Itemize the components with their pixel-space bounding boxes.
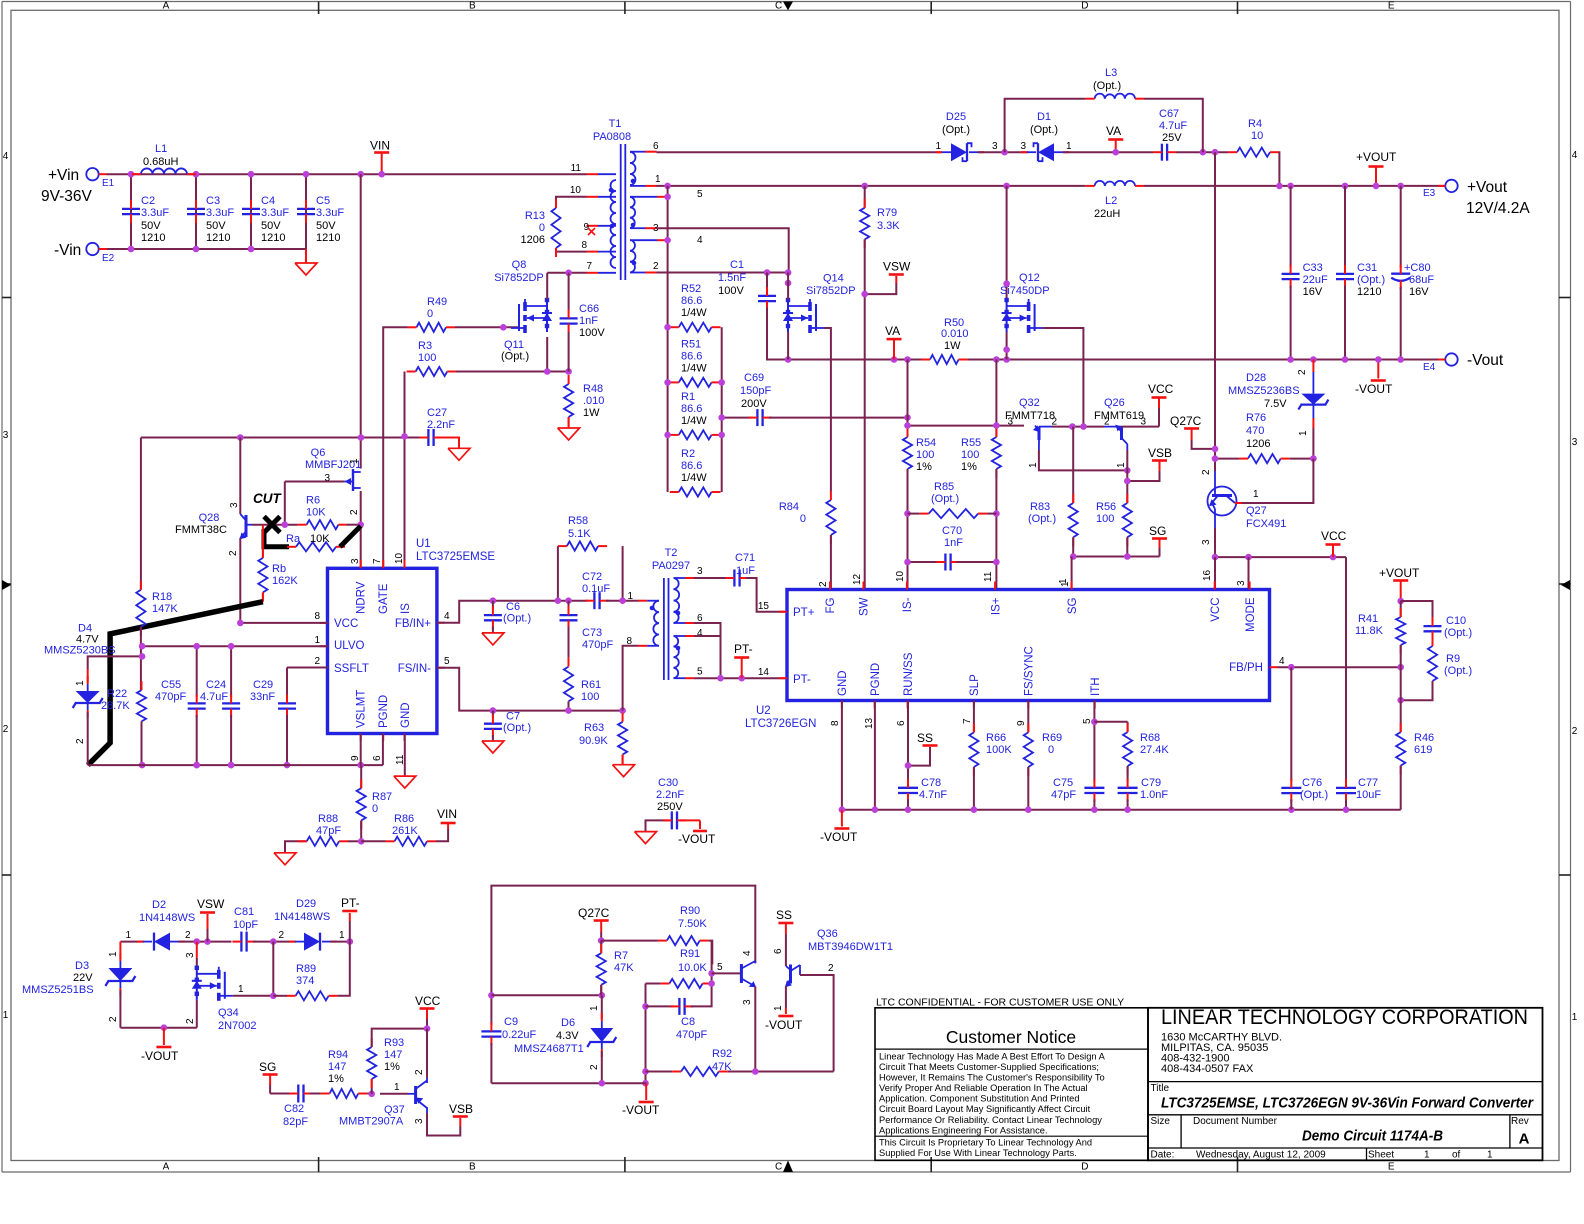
svg-text:16V: 16V xyxy=(1303,286,1323,298)
svg-text:+C80: +C80 xyxy=(1404,262,1431,274)
svg-text:3.3uF: 3.3uF xyxy=(261,207,289,219)
svg-text:9: 9 xyxy=(1016,720,1027,726)
svg-text:ULVO: ULVO xyxy=(334,640,365,652)
svg-text:CUT: CUT xyxy=(253,491,282,506)
svg-text:100: 100 xyxy=(581,691,599,703)
svg-text:50V: 50V xyxy=(206,220,226,232)
svg-text:C67: C67 xyxy=(1159,108,1179,120)
svg-text:Rb: Rb xyxy=(272,563,286,575)
svg-text:L2: L2 xyxy=(1105,195,1117,207)
svg-text:16: 16 xyxy=(1202,569,1213,581)
svg-text:3: 3 xyxy=(992,141,998,152)
svg-text:E2: E2 xyxy=(102,253,115,264)
svg-text:Si7852DP: Si7852DP xyxy=(494,272,544,284)
svg-text:-VOUT: -VOUT xyxy=(622,1103,660,1117)
svg-text:VCC: VCC xyxy=(1148,382,1174,396)
svg-text:However, It Remains The Custom: However, It Remains The Customer's Respo… xyxy=(879,1073,1105,1083)
svg-text:R51: R51 xyxy=(681,338,701,350)
svg-text:4.7nF: 4.7nF xyxy=(919,789,947,801)
svg-text:(Opt.): (Opt.) xyxy=(931,493,959,505)
svg-text:47pF: 47pF xyxy=(316,825,341,837)
svg-text:86.6: 86.6 xyxy=(681,295,702,307)
svg-text:L3: L3 xyxy=(1105,67,1117,79)
svg-text:Date:: Date: xyxy=(1151,1150,1175,1161)
svg-text:L1: L1 xyxy=(155,143,167,155)
svg-text:5: 5 xyxy=(697,189,703,200)
svg-text:-Vin: -Vin xyxy=(54,242,81,259)
svg-text:Supplied For Use With Linear T: Supplied For Use With Linear Technology … xyxy=(879,1148,1077,1158)
svg-text:4.7uF: 4.7uF xyxy=(1159,120,1187,132)
svg-text:16V: 16V xyxy=(1409,286,1429,298)
svg-text:C33: C33 xyxy=(1303,262,1323,274)
svg-text:E4: E4 xyxy=(1423,362,1436,373)
svg-text:FMMT38C: FMMT38C xyxy=(175,524,227,536)
svg-text:2: 2 xyxy=(1297,369,1308,375)
svg-text:Performance Or Reliability. Co: Performance Or Reliability. Contact Line… xyxy=(879,1115,1102,1125)
svg-text:C24: C24 xyxy=(206,679,226,691)
svg-text:-VOUT: -VOUT xyxy=(678,832,716,846)
svg-text:3: 3 xyxy=(3,430,9,441)
svg-text:1nF: 1nF xyxy=(579,315,598,327)
svg-text:SG: SG xyxy=(1067,597,1079,614)
svg-text:5: 5 xyxy=(697,667,703,678)
svg-text:C6: C6 xyxy=(506,601,520,613)
svg-text:2: 2 xyxy=(1104,417,1110,428)
svg-text:T1: T1 xyxy=(609,118,622,130)
svg-text:VSLMT: VSLMT xyxy=(356,690,368,728)
svg-text:6: 6 xyxy=(653,141,659,152)
svg-text:1210: 1210 xyxy=(1357,286,1381,298)
svg-text:5.1K: 5.1K xyxy=(568,528,591,540)
svg-text:Q26: Q26 xyxy=(1104,397,1125,409)
svg-text:Document Number: Document Number xyxy=(1193,1116,1278,1127)
svg-text:C2: C2 xyxy=(141,195,155,207)
svg-text:C73: C73 xyxy=(582,627,602,639)
svg-text:RUN/SS: RUN/SS xyxy=(903,652,915,696)
svg-text:A: A xyxy=(1519,1131,1530,1148)
svg-text:3: 3 xyxy=(1201,539,1212,545)
svg-text:3.3uF: 3.3uF xyxy=(316,207,344,219)
svg-text:150pF: 150pF xyxy=(740,385,771,397)
svg-text:408-434-0507 FAX: 408-434-0507 FAX xyxy=(1161,1063,1254,1075)
svg-text:1N4148WS: 1N4148WS xyxy=(139,912,195,924)
svg-text:MODE: MODE xyxy=(1245,597,1257,632)
svg-text:C10: C10 xyxy=(1446,615,1466,627)
svg-text:47K: 47K xyxy=(712,1061,732,1073)
svg-text:D2: D2 xyxy=(152,899,166,911)
svg-text:5: 5 xyxy=(717,962,723,973)
svg-text:Ra: Ra xyxy=(286,533,301,545)
svg-text:2: 2 xyxy=(3,724,9,735)
svg-text:86.6: 86.6 xyxy=(681,403,702,415)
svg-text:2: 2 xyxy=(349,509,360,515)
svg-text:3: 3 xyxy=(742,999,753,1005)
svg-text:2: 2 xyxy=(653,261,659,272)
svg-text:1: 1 xyxy=(773,1005,784,1011)
svg-text:D28: D28 xyxy=(1246,372,1266,384)
svg-text:100V: 100V xyxy=(718,285,744,297)
svg-text:0.68uH: 0.68uH xyxy=(143,156,179,168)
svg-text:1: 1 xyxy=(1116,462,1127,468)
svg-text:SLP: SLP xyxy=(969,674,981,696)
svg-text:VIN: VIN xyxy=(437,807,457,821)
svg-text:100: 100 xyxy=(418,352,436,364)
svg-text:0.1uF: 0.1uF xyxy=(582,583,610,595)
svg-text:MMSZ5230BS: MMSZ5230BS xyxy=(44,645,116,657)
svg-text:9V-36V: 9V-36V xyxy=(41,188,93,205)
svg-text:68uF: 68uF xyxy=(1409,274,1434,286)
svg-text:MMSZ5251BS: MMSZ5251BS xyxy=(22,984,94,996)
svg-text:FB/PH: FB/PH xyxy=(1229,662,1263,674)
svg-text:1210: 1210 xyxy=(316,232,340,244)
svg-text:PT-: PT- xyxy=(793,674,811,686)
svg-text:NDRV: NDRV xyxy=(356,581,368,614)
svg-text:1/4W: 1/4W xyxy=(681,362,707,374)
svg-text:FS/IN-: FS/IN- xyxy=(398,663,431,675)
svg-text:8: 8 xyxy=(581,240,587,251)
svg-text:0: 0 xyxy=(539,222,545,234)
svg-text:R84: R84 xyxy=(779,501,799,513)
svg-text:R88: R88 xyxy=(318,813,338,825)
svg-text:LTC3725EMSE, LTC3726EGN 9V-36: LTC3725EMSE, LTC3726EGN 9V-36Vin Forward… xyxy=(1161,1095,1534,1112)
svg-text:C31: C31 xyxy=(1357,262,1377,274)
svg-text:100V: 100V xyxy=(579,327,605,339)
svg-text:Q11: Q11 xyxy=(504,339,524,351)
svg-text:C66: C66 xyxy=(579,303,599,315)
svg-text:FCX491: FCX491 xyxy=(1246,518,1286,530)
svg-text:47K: 47K xyxy=(614,962,634,974)
svg-text:3: 3 xyxy=(1572,437,1578,448)
svg-text:R90: R90 xyxy=(680,905,700,917)
svg-text:SSFLT: SSFLT xyxy=(334,663,369,675)
svg-text:R86: R86 xyxy=(394,813,414,825)
svg-text:R89: R89 xyxy=(296,963,316,975)
svg-text:C7: C7 xyxy=(506,711,520,723)
svg-text:25V: 25V xyxy=(1162,132,1182,144)
svg-text:R68: R68 xyxy=(1140,732,1160,744)
svg-text:1/4W: 1/4W xyxy=(681,307,707,319)
svg-text:4: 4 xyxy=(1279,656,1285,667)
svg-text:8: 8 xyxy=(830,720,841,726)
svg-text:1210: 1210 xyxy=(141,232,165,244)
svg-text:12V/4.2A: 12V/4.2A xyxy=(1466,200,1530,217)
svg-text:2: 2 xyxy=(75,738,86,744)
svg-text:VSB: VSB xyxy=(1148,446,1172,460)
svg-text:1: 1 xyxy=(314,635,320,646)
svg-text:Q34: Q34 xyxy=(218,1007,239,1019)
svg-text:1: 1 xyxy=(1253,489,1259,500)
svg-text:SG: SG xyxy=(1149,524,1166,538)
svg-text:-VOUT: -VOUT xyxy=(820,830,858,844)
svg-text:.010: .010 xyxy=(583,395,604,407)
svg-text:261K: 261K xyxy=(392,825,418,837)
svg-text:Wednesday, August 12, 2009: Wednesday, August 12, 2009 xyxy=(1196,1150,1326,1161)
svg-text:This Circuit Is Proprietary To: This Circuit Is Proprietary To Linear Te… xyxy=(879,1138,1092,1148)
svg-text:Sheet: Sheet xyxy=(1368,1150,1394,1161)
svg-text:2: 2 xyxy=(818,581,829,587)
svg-text:C5: C5 xyxy=(316,195,330,207)
svg-text:1%: 1% xyxy=(961,461,977,473)
svg-text:3: 3 xyxy=(1236,580,1247,586)
svg-text:(Opt.): (Opt.) xyxy=(503,613,531,625)
svg-text:Si7450DP: Si7450DP xyxy=(1000,285,1050,297)
svg-text:A: A xyxy=(163,1162,170,1173)
svg-text:E: E xyxy=(1388,1,1395,12)
svg-text:2N7002: 2N7002 xyxy=(218,1020,257,1032)
svg-text:R69: R69 xyxy=(1042,732,1062,744)
svg-text:2: 2 xyxy=(108,1016,119,1022)
svg-text:R18: R18 xyxy=(152,591,172,603)
svg-text:VIN: VIN xyxy=(370,139,390,153)
svg-text:C3: C3 xyxy=(206,195,220,207)
svg-text:(Opt.): (Opt.) xyxy=(501,351,529,363)
svg-text:0: 0 xyxy=(427,308,433,320)
svg-text:LTC CONFIDENTIAL - FOR CUSTOME: LTC CONFIDENTIAL - FOR CUSTOMER USE ONLY xyxy=(876,997,1124,1009)
svg-text:R13: R13 xyxy=(525,210,545,222)
svg-text:R22: R22 xyxy=(107,688,127,700)
svg-text:C81: C81 xyxy=(234,906,254,918)
svg-text:1/4W: 1/4W xyxy=(681,415,707,427)
svg-text:GATE: GATE xyxy=(378,583,390,614)
svg-text:C76: C76 xyxy=(1302,777,1322,789)
svg-text:1N4148WS: 1N4148WS xyxy=(274,911,330,923)
svg-text:6: 6 xyxy=(372,755,383,761)
svg-text:Q27C: Q27C xyxy=(578,906,610,920)
svg-text:86.6: 86.6 xyxy=(681,350,702,362)
svg-text:3.3uF: 3.3uF xyxy=(206,207,234,219)
svg-text:MMSZ4687T1: MMSZ4687T1 xyxy=(514,1043,584,1055)
svg-text:R46: R46 xyxy=(1414,732,1434,744)
svg-text:-VOUT: -VOUT xyxy=(765,1018,803,1032)
svg-text:1: 1 xyxy=(589,1005,600,1011)
svg-text:Demo Circuit 1174A-B: Demo Circuit 1174A-B xyxy=(1302,1129,1443,1145)
svg-text:C77: C77 xyxy=(1358,777,1378,789)
svg-text:Q28: Q28 xyxy=(199,512,220,524)
svg-text:1W: 1W xyxy=(944,340,961,352)
svg-text:C71: C71 xyxy=(735,552,755,564)
svg-text:C1: C1 xyxy=(730,259,744,271)
svg-text:12: 12 xyxy=(852,573,863,585)
svg-text:R87: R87 xyxy=(372,791,392,803)
svg-text:R54: R54 xyxy=(916,437,936,449)
svg-text:1210: 1210 xyxy=(206,232,230,244)
svg-text:R76: R76 xyxy=(1246,412,1266,424)
svg-text:PT-: PT- xyxy=(341,896,360,910)
svg-text:D6: D6 xyxy=(561,1017,575,1029)
svg-text:1: 1 xyxy=(238,984,244,995)
svg-text:VCC: VCC xyxy=(334,618,358,630)
svg-text:Q36: Q36 xyxy=(817,928,838,940)
svg-text:R92: R92 xyxy=(712,1048,732,1060)
svg-text:MBT3946DW1T1: MBT3946DW1T1 xyxy=(808,941,893,953)
svg-text:11: 11 xyxy=(571,163,582,174)
svg-text:10K: 10K xyxy=(310,533,330,545)
svg-text:3.3uF: 3.3uF xyxy=(141,207,169,219)
svg-text:IS: IS xyxy=(400,603,412,614)
svg-text:11.8K: 11.8K xyxy=(1355,625,1384,637)
svg-text:2.2nF: 2.2nF xyxy=(427,419,455,431)
svg-text:2: 2 xyxy=(314,656,320,667)
svg-text:3: 3 xyxy=(185,952,196,958)
svg-text:10K: 10K xyxy=(306,507,326,519)
svg-text:11: 11 xyxy=(983,571,994,582)
svg-text:(Opt.): (Opt.) xyxy=(942,124,970,136)
svg-text:5: 5 xyxy=(444,656,450,667)
svg-text:R9: R9 xyxy=(1446,653,1460,665)
svg-text:PGND: PGND xyxy=(378,695,390,728)
svg-text:1%: 1% xyxy=(328,1073,344,1085)
svg-text:4: 4 xyxy=(444,611,450,622)
svg-text:LINEAR TECHNOLOGY CORPORATION: LINEAR TECHNOLOGY CORPORATION xyxy=(1161,1006,1528,1029)
svg-text:C8: C8 xyxy=(681,1016,695,1028)
svg-text:R93: R93 xyxy=(384,1037,404,1049)
svg-text:(Opt.): (Opt.) xyxy=(1093,80,1121,92)
svg-text:1: 1 xyxy=(394,1082,400,1093)
svg-text:D25: D25 xyxy=(946,111,966,123)
svg-text:SS: SS xyxy=(776,908,792,922)
svg-text:-VOUT: -VOUT xyxy=(1355,382,1393,396)
svg-text:Linear Technology Has Made A B: Linear Technology Has Made A Best Effort… xyxy=(879,1052,1106,1062)
svg-text:1: 1 xyxy=(108,951,119,957)
svg-text:+Vout: +Vout xyxy=(1467,179,1508,196)
svg-text:R66: R66 xyxy=(986,732,1006,744)
svg-text:MMSZ5236BS: MMSZ5236BS xyxy=(1228,385,1300,397)
svg-text:7: 7 xyxy=(372,558,383,564)
svg-text:1%: 1% xyxy=(916,461,932,473)
svg-text:200V: 200V xyxy=(741,398,767,410)
svg-text:(Opt.): (Opt.) xyxy=(1444,627,1472,639)
svg-text:1: 1 xyxy=(3,1010,9,1021)
svg-text:100: 100 xyxy=(961,449,979,461)
svg-text:0: 0 xyxy=(800,513,806,525)
svg-text:+Vin: +Vin xyxy=(48,167,79,184)
svg-text:FMMT619: FMMT619 xyxy=(1094,410,1144,422)
svg-text:13: 13 xyxy=(864,717,875,729)
svg-text:D29: D29 xyxy=(296,898,316,910)
svg-text:C: C xyxy=(775,1,782,12)
svg-text:(Opt.): (Opt.) xyxy=(1357,274,1385,286)
svg-text:Q8: Q8 xyxy=(512,259,527,271)
svg-text:0.010: 0.010 xyxy=(941,328,969,340)
svg-text:R85: R85 xyxy=(934,481,954,493)
svg-text:3: 3 xyxy=(1007,417,1013,428)
svg-text:28.7K: 28.7K xyxy=(101,700,130,712)
svg-text:50V: 50V xyxy=(261,220,281,232)
svg-text:4: 4 xyxy=(697,235,703,246)
svg-text:GND: GND xyxy=(837,670,849,696)
svg-text:R63: R63 xyxy=(584,722,604,734)
svg-text:D3: D3 xyxy=(75,960,89,972)
svg-text:2: 2 xyxy=(185,1018,196,1024)
svg-text:R3: R3 xyxy=(418,340,432,352)
svg-text:470pF: 470pF xyxy=(582,639,613,651)
svg-text:C75: C75 xyxy=(1053,777,1073,789)
svg-text:VCC: VCC xyxy=(1210,598,1222,622)
svg-text:R7: R7 xyxy=(614,950,628,962)
svg-text:374: 374 xyxy=(296,975,314,987)
svg-text:R58: R58 xyxy=(568,515,588,527)
svg-text:2: 2 xyxy=(1572,726,1578,737)
svg-text:VSW: VSW xyxy=(197,897,225,911)
svg-text:R41: R41 xyxy=(1358,613,1378,625)
svg-text:7.5V: 7.5V xyxy=(1264,398,1287,410)
svg-text:FS/SYNC: FS/SYNC xyxy=(1024,646,1036,696)
svg-text:470pF: 470pF xyxy=(155,691,186,703)
svg-text:R49: R49 xyxy=(427,296,447,308)
svg-text:100: 100 xyxy=(916,449,934,461)
svg-text:22uH: 22uH xyxy=(1094,208,1120,220)
svg-text:1: 1 xyxy=(339,930,345,941)
svg-text:Circuit Board Layout May Signi: Circuit Board Layout May Significantly A… xyxy=(879,1104,1091,1114)
svg-text:FB/IN+: FB/IN+ xyxy=(395,618,431,630)
svg-text:1uF: 1uF xyxy=(736,565,755,577)
svg-text:T2: T2 xyxy=(665,547,678,559)
svg-text:C82: C82 xyxy=(284,1103,304,1115)
svg-text:2: 2 xyxy=(589,1064,600,1070)
svg-text:4.7uF: 4.7uF xyxy=(200,691,228,703)
svg-text:Size: Size xyxy=(1151,1116,1171,1127)
svg-text:1.0nF: 1.0nF xyxy=(1140,789,1168,801)
svg-text:15: 15 xyxy=(758,601,770,612)
svg-text:3: 3 xyxy=(414,1118,425,1124)
svg-text:PGND: PGND xyxy=(870,663,882,696)
svg-text:2: 2 xyxy=(414,1069,425,1075)
svg-text:10: 10 xyxy=(1251,130,1263,142)
svg-text:R6: R6 xyxy=(306,495,320,507)
svg-text:(Opt.): (Opt.) xyxy=(503,722,531,734)
svg-text:C69: C69 xyxy=(744,372,764,384)
svg-text:FG: FG xyxy=(825,597,837,613)
svg-text:3: 3 xyxy=(1140,417,1146,428)
svg-text:1: 1 xyxy=(655,174,661,185)
svg-text:U2: U2 xyxy=(756,705,771,717)
svg-text:147: 147 xyxy=(328,1061,346,1073)
svg-text:4: 4 xyxy=(697,628,703,639)
svg-text:4: 4 xyxy=(1572,150,1578,161)
svg-text:162K: 162K xyxy=(272,575,298,587)
svg-text:R56: R56 xyxy=(1096,501,1116,513)
svg-text:(Opt.): (Opt.) xyxy=(1300,789,1328,801)
svg-text:147: 147 xyxy=(384,1049,402,1061)
svg-text:Verify Proper And Reliable Ope: Verify Proper And Reliable Operation In … xyxy=(879,1083,1088,1093)
svg-text:4.3V: 4.3V xyxy=(556,1030,579,1042)
svg-text:8: 8 xyxy=(314,611,320,622)
svg-text:3: 3 xyxy=(697,566,703,577)
svg-text:R83: R83 xyxy=(1030,501,1050,513)
svg-text:R91: R91 xyxy=(680,948,700,960)
svg-text:1: 1 xyxy=(1028,462,1039,468)
svg-text:3: 3 xyxy=(1020,141,1026,152)
svg-text:2.2nF: 2.2nF xyxy=(656,789,684,801)
svg-text:27.4K: 27.4K xyxy=(1140,744,1169,756)
svg-text:PT-: PT- xyxy=(734,642,753,656)
svg-text:R48: R48 xyxy=(583,383,603,395)
svg-text:1nF: 1nF xyxy=(944,537,963,549)
svg-text:0: 0 xyxy=(1048,744,1054,756)
svg-text:PA0297: PA0297 xyxy=(652,560,690,572)
svg-text:2: 2 xyxy=(278,930,284,941)
svg-text:C79: C79 xyxy=(1141,777,1161,789)
svg-text:PT+: PT+ xyxy=(793,607,815,619)
svg-text:4: 4 xyxy=(3,151,9,162)
svg-text:Q14: Q14 xyxy=(823,273,844,285)
svg-text:Application. Component Substit: Application. Component Substitution And … xyxy=(879,1094,1080,1104)
svg-text:VSW: VSW xyxy=(883,260,911,274)
svg-text:+VOUT: +VOUT xyxy=(1356,150,1397,164)
svg-text:1%: 1% xyxy=(384,1061,400,1073)
svg-text:50V: 50V xyxy=(141,220,161,232)
svg-text:Q32: Q32 xyxy=(1019,397,1040,409)
